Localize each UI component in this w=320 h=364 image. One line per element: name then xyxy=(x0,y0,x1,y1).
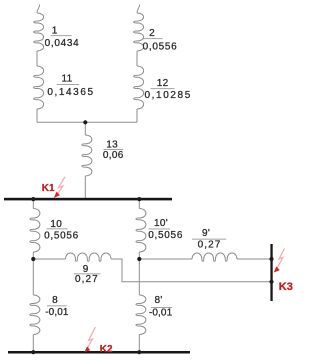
inductor 13 xyxy=(82,135,92,176)
fault K3 lightning bolt xyxy=(277,249,285,269)
wire from inductor 8 to busbar K2 xyxy=(32,335,34,353)
value label 2/0,0556 xyxy=(142,28,177,53)
inductor 8' xyxy=(136,295,146,335)
inductor 2 xyxy=(134,13,144,51)
node junction of inductors 10 8 9 xyxy=(31,257,35,261)
svg-text:-0,01: -0,01 xyxy=(149,308,173,319)
svg-text:K3: K3 xyxy=(279,281,293,293)
wire top stub of branch 1 xyxy=(37,5,40,14)
value label 12/0,10285 xyxy=(145,78,192,101)
inductor 1 xyxy=(34,13,44,51)
wire from inductor 13 to busbar K1 xyxy=(84,176,86,199)
busbar K1 xyxy=(4,198,172,201)
value label 10/0,5056 xyxy=(44,219,79,241)
inductor 10' xyxy=(136,209,146,253)
wire from busbar K1 to inductor 10 xyxy=(32,200,34,209)
inductor 8 xyxy=(30,295,40,335)
fault K3 arrowhead xyxy=(274,266,280,272)
value label 11/0,14365 xyxy=(47,74,94,98)
value label 8'/-0,01 xyxy=(149,295,173,319)
busbar K2 xyxy=(8,351,190,354)
fault K2 arrowhead xyxy=(84,346,90,352)
node busbar K3 upper xyxy=(269,257,273,261)
wire from node down to inductor 13 xyxy=(84,122,86,135)
fault K1 arrowhead xyxy=(54,192,60,198)
node busbar K2 left xyxy=(31,350,35,354)
wire from left node to inductor 9 xyxy=(33,258,65,260)
wire from busbar K1 to inductor 10' xyxy=(138,200,140,209)
svg-text:0,5056: 0,5056 xyxy=(148,230,183,241)
svg-text:-0,01: -0,01 xyxy=(45,307,69,318)
value label 8/-0,01 xyxy=(45,295,69,318)
wire step from inductor 9 down and right to busbar K3 xyxy=(111,259,271,282)
svg-text:K2: K2 xyxy=(100,344,113,355)
svg-text:0,27: 0,27 xyxy=(198,240,222,251)
svg-text:8: 8 xyxy=(52,295,58,306)
wire top stub of branch 2 xyxy=(137,5,140,14)
svg-text:K1: K1 xyxy=(42,183,55,194)
svg-text:0,0434: 0,0434 xyxy=(45,38,80,49)
node busbar K2 right xyxy=(137,350,141,354)
value label 10'/0,5056 xyxy=(148,218,183,241)
wire from inductor 9' to busbar K3 xyxy=(237,258,271,260)
wire from inductor 8' to busbar K2 xyxy=(138,335,140,353)
value label 9/0,27 xyxy=(74,264,101,285)
svg-text:8': 8' xyxy=(155,295,163,306)
fault K1 lightning bolt xyxy=(57,177,66,195)
node junction of inductors 10' 8' 9' xyxy=(137,257,141,261)
svg-text:1: 1 xyxy=(52,25,58,36)
svg-text:10: 10 xyxy=(50,219,62,230)
value label 1/0,0434 xyxy=(45,25,80,48)
svg-text:2: 2 xyxy=(149,28,155,39)
wire from right node to inductor 9' xyxy=(139,258,192,260)
wire between inductor 10' and right node xyxy=(138,252,140,295)
svg-text:0,10285: 0,10285 xyxy=(145,90,192,101)
svg-text:0,14365: 0,14365 xyxy=(47,87,94,98)
wire below inductor 11 xyxy=(36,109,38,122)
wire below inductor 12 xyxy=(136,109,138,122)
wire horizontal connector joining the two branches xyxy=(37,121,137,123)
node busbar K3 lower xyxy=(269,280,273,284)
svg-text:0,06: 0,06 xyxy=(103,150,124,161)
inductor 9 xyxy=(66,253,112,261)
inductor 11 xyxy=(34,66,44,109)
inductor 10 xyxy=(30,209,40,253)
wire between inductor 10 and left node xyxy=(32,252,34,295)
svg-text:10': 10' xyxy=(154,218,168,229)
wire between inductor 2 and inductor 12 xyxy=(136,51,138,66)
node junction of branches 1-11 / 2-12 / 13 xyxy=(83,120,87,124)
node busbar K1 left xyxy=(31,197,35,201)
value label 13/0,06 xyxy=(103,139,124,161)
inductor 9' xyxy=(192,253,237,261)
svg-text:0,27: 0,27 xyxy=(75,274,99,285)
inductor 12 xyxy=(134,66,144,109)
svg-text:0,5056: 0,5056 xyxy=(44,230,79,241)
svg-text:9: 9 xyxy=(83,264,89,275)
busbar K3 xyxy=(270,244,272,301)
svg-text:12: 12 xyxy=(157,78,169,89)
node busbar K1 right xyxy=(137,197,141,201)
wire between inductor 1 and inductor 11 xyxy=(36,51,38,66)
value label 9'/0,27 xyxy=(192,228,226,251)
svg-text:13: 13 xyxy=(106,139,118,150)
fault K2 lightning bolt xyxy=(86,327,96,351)
svg-text:0,0556: 0,0556 xyxy=(143,42,178,53)
svg-text:9': 9' xyxy=(202,228,210,239)
svg-text:11: 11 xyxy=(62,74,73,85)
